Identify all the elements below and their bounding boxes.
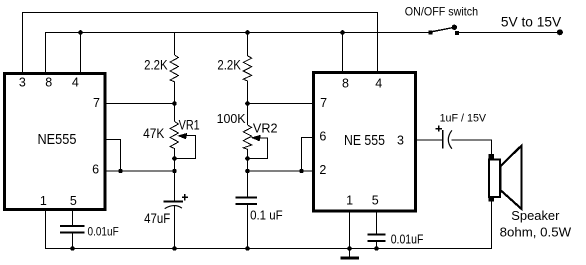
capacitor C3 0.1uF (236, 198, 258, 249)
svg-text:VR1: VR1 (179, 117, 200, 132)
svg-text:100K: 100K (217, 111, 246, 126)
label VR1 (179, 117, 200, 132)
svg-text:3: 3 (19, 76, 26, 90)
value label 47uF (C2) (144, 210, 170, 226)
svg-text:4: 4 (72, 76, 79, 90)
label Speaker (511, 208, 560, 223)
speaker LS1 (489, 146, 522, 209)
svg-text:NE 555: NE 555 (344, 133, 385, 149)
pin number 4 (U2) (375, 77, 382, 91)
node: junction dot pin6/VR1 chain (172, 169, 177, 174)
capacitor C1 0.01uF (60, 211, 84, 249)
wire: C5 to speaker (452, 140, 492, 155)
wire: U1 pin 2 bracket to pin 6 row (106, 140, 121, 172)
value label 0.01uF (C4) (391, 233, 424, 247)
svg-text:2.2K: 2.2K (217, 56, 241, 72)
pin number 3 (U1) (19, 76, 26, 90)
node: junction dot pin7/R1/VR1 (172, 101, 177, 106)
node: supply terminal dot (557, 29, 563, 35)
pin number 7 (U1) (93, 96, 100, 110)
value label 2.2K (R2) (217, 56, 241, 72)
resistor R1 2.2K (170, 33, 178, 104)
value label 47K (VR1) (143, 126, 164, 141)
svg-text:Speaker: Speaker (511, 208, 560, 223)
pin number 7 (U2) (320, 96, 327, 110)
svg-text:VR2: VR2 (253, 121, 278, 136)
potentiometer VR1 47K (170, 104, 178, 202)
svg-text:0.01uF: 0.01uF (391, 233, 424, 247)
node: junction dot VR2 wiper return (245, 156, 250, 161)
svg-text:5: 5 (70, 194, 77, 208)
wire: U1 pin 6 row (106, 170, 175, 172)
pin number 8 (U2) (342, 77, 349, 91)
node: junction dot R2 top / V+ rail (245, 30, 250, 35)
svg-text:NE555: NE555 (38, 132, 77, 148)
wire: top rail from U1 pin 3 to U2 pin 4 (23, 13, 378, 73)
node: junction dot VR2 chain / pin2 row (245, 169, 250, 174)
svg-text:4: 4 (375, 77, 382, 91)
label NE 555 (U2) (344, 133, 385, 149)
potentiometer VR2 100K (243, 104, 251, 197)
svg-text:8ohm, 0.5W: 8ohm, 0.5W (500, 225, 572, 240)
node: junction dot U1 pin4 / V+ rail (78, 30, 83, 35)
wire: VR1 wiper arm (175, 133, 196, 159)
wire: U1 pin 7 row (106, 103, 175, 105)
pin number 1 (U1) (40, 194, 47, 208)
svg-text:47K: 47K (143, 126, 164, 141)
node: junction dot C1 to ground rail (70, 246, 75, 251)
wire: U2 pin 3 output row (417, 139, 442, 141)
svg-text:2.2K: 2.2K (144, 56, 168, 72)
capacitor C5 1uF/15V electrolytic (436, 126, 452, 149)
pin number 8 (U1) (45, 76, 52, 90)
label 5V to 15V (501, 15, 561, 30)
wire: U2 pin 6 to pin 2 bracket (302, 138, 314, 172)
node: junction dot C2 to ground rail (172, 246, 177, 251)
label VR2 (253, 121, 278, 136)
pin number 5 (U2) (372, 194, 379, 208)
node: junction dot bracket/pin6 (118, 169, 123, 174)
wire: U2 pin 1 to ground (349, 212, 351, 257)
node: junction dot bracket / pin2 row (299, 169, 304, 174)
pin number 3 (U2) (397, 134, 404, 148)
capacitor C4 0.01uF (368, 212, 386, 249)
svg-text:0.1 uF: 0.1 uF (250, 209, 283, 223)
wire: switch to supply terminal (459, 32, 560, 34)
label ON/OFF switch (405, 5, 478, 19)
value label 100K (VR2) (217, 111, 246, 126)
node: junction dot C3 to ground rail (245, 246, 250, 251)
svg-text:7: 7 (93, 96, 100, 110)
ground symbol (341, 257, 360, 260)
wire: U1 pin1 to ground rail, bottom rail to speaker (46, 201, 492, 249)
svg-text:5: 5 (372, 194, 379, 208)
svg-text:8: 8 (342, 77, 349, 91)
svg-text:1: 1 (40, 194, 47, 208)
wire: U2 pin 7 row (248, 103, 314, 105)
svg-text:2: 2 (319, 163, 326, 177)
svg-text:8: 8 (45, 76, 52, 90)
label 8ohm, 0.5W (500, 225, 572, 240)
node: junction dot C4 to ground rail (374, 246, 379, 251)
svg-text:6: 6 (319, 129, 326, 143)
svg-text:7: 7 (320, 96, 327, 110)
pin number 5 (U1) (70, 194, 77, 208)
value label 1uF / 15V (C5) (440, 113, 487, 125)
resistor R2 2.2K (243, 33, 251, 104)
node: junction dot R2/VR2/pin7 (245, 101, 250, 106)
node: junction dot U2 pin8 / V+ rail (340, 30, 345, 35)
value label 0.1 uF (C3) (250, 209, 283, 223)
wire: U2 pin 2 row (248, 170, 314, 172)
pin number 4 (U1) (72, 76, 79, 90)
pin number 2 (U2) (319, 163, 326, 177)
op-amp U1 NE555 IC body (5, 74, 106, 210)
svg-text:3: 3 (397, 134, 404, 148)
capacitor C2 47uF electrolytic (164, 194, 188, 248)
svg-text:6: 6 (92, 163, 99, 177)
pin number 1 (U2) (346, 194, 353, 208)
svg-text:ON/OFF switch: ON/OFF switch (405, 5, 478, 19)
svg-text:47uF: 47uF (144, 210, 170, 226)
svg-text:0.01uF: 0.01uF (88, 227, 119, 239)
label NE555 (U1) (38, 132, 77, 148)
value label 2.2K (R1) (144, 56, 168, 72)
value label 0.01uF (C1) (88, 227, 119, 239)
switch SW1 ON/OFF (428, 25, 459, 36)
svg-text:1uF / 15V: 1uF / 15V (440, 113, 487, 125)
wire: U2 pin 8 to V+ rail (342, 33, 344, 72)
wire: V+ rail from U1 pin 8 to switch (46, 33, 431, 73)
pin number 6 (U1) (92, 163, 99, 177)
pin number 6 (U2) (319, 129, 326, 143)
node: junction dot VR1 wiper return (172, 156, 177, 161)
svg-text:1: 1 (346, 194, 353, 208)
op-amp U2 NE 555 IC body (314, 73, 416, 212)
wire: VR2 wiper arm (249, 135, 268, 159)
node: junction dot pin1 / ground rail (347, 246, 352, 251)
svg-text:5V to 15V: 5V to 15V (501, 15, 561, 30)
wire: U1 pin 4 to V+ rail (80, 33, 82, 73)
